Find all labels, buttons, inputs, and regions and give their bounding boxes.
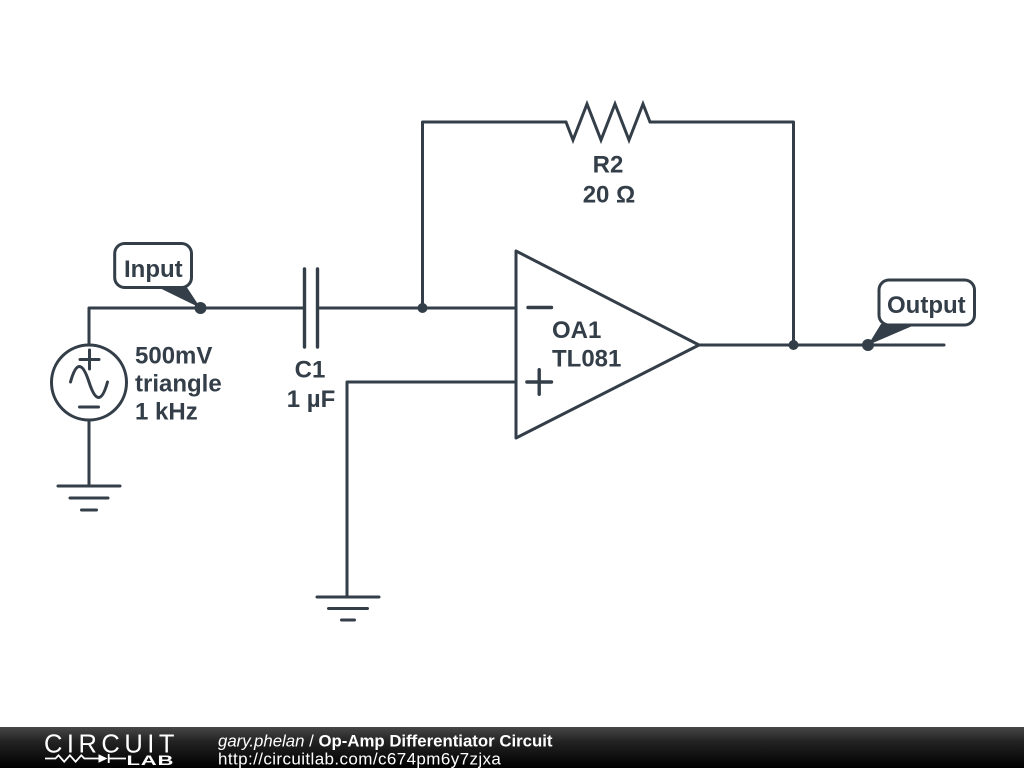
svg-text:Output: Output [887, 292, 966, 319]
svg-text:R2: R2 [593, 152, 624, 179]
svg-text:triangle: triangle [135, 371, 222, 398]
svg-text:gary.phelan / Op-Amp Different: gary.phelan / Op-Amp Differentiator Circ… [218, 732, 553, 751]
svg-text:1 kHz: 1 kHz [135, 399, 198, 426]
svg-text:1 µF: 1 µF [287, 386, 336, 413]
svg-text:Input: Input [124, 256, 183, 283]
svg-text:LAB: LAB [127, 752, 175, 768]
svg-text:500mV: 500mV [135, 343, 212, 370]
svg-text:20 Ω: 20 Ω [583, 182, 636, 209]
svg-text:http://circuitlab.com/c674pm6y: http://circuitlab.com/c674pm6y7zjxa [218, 750, 501, 768]
svg-text:TL081: TL081 [552, 346, 621, 373]
svg-text:OA1: OA1 [552, 317, 601, 344]
svg-text:C1: C1 [295, 357, 326, 384]
